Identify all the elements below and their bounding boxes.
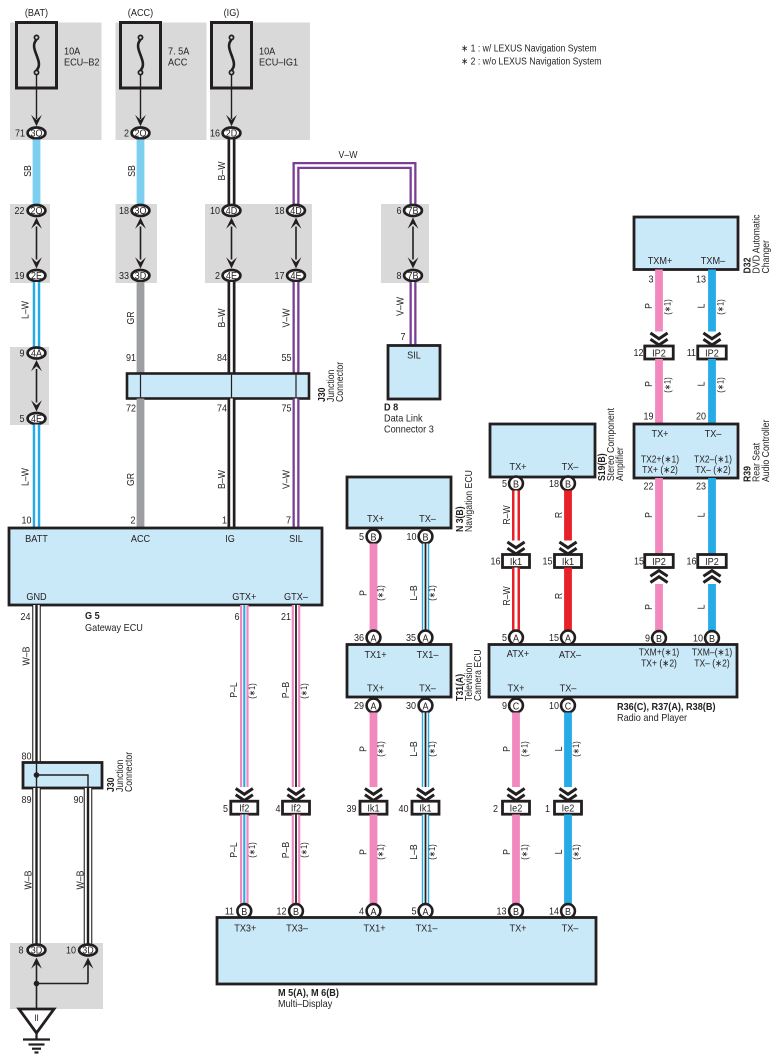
- svg-text:16: 16: [491, 557, 501, 568]
- gray panel connector 2Q/2E column1: [10, 204, 50, 283]
- connector IP2 row2 left: [645, 555, 674, 568]
- svg-text:72: 72: [126, 404, 136, 415]
- svg-text:IP2: IP2: [705, 347, 719, 359]
- svg-text:II: II: [34, 1013, 39, 1024]
- svg-text:L–W: L–W: [21, 468, 32, 486]
- svg-text:TX+: TX+: [652, 428, 669, 440]
- svg-text:11: 11: [687, 348, 697, 359]
- svg-text:L–B: L–B: [409, 741, 420, 757]
- svg-text:B–W: B–W: [217, 308, 228, 327]
- gray panel behind ACC fuse: [116, 23, 207, 141]
- svg-text:P: P: [644, 604, 655, 610]
- svg-text:39: 39: [347, 804, 357, 815]
- svg-text:2: 2: [131, 516, 136, 527]
- fuse value 10A ECU–IG1: [259, 46, 298, 69]
- svg-text:(∗1): (∗1): [376, 844, 386, 859]
- svg-text:If2: If2: [239, 802, 249, 814]
- chevron arrows into IP2 connectors row1: [650, 333, 667, 339]
- connector IP2 row1 right: [698, 346, 727, 359]
- svg-text:L: L: [697, 512, 708, 517]
- svg-text:4: 4: [359, 907, 364, 918]
- svg-text:R: R: [554, 593, 565, 599]
- svg-text:(∗1): (∗1): [716, 377, 726, 392]
- wire GR column2 upper: [137, 282, 145, 374]
- svg-text:V–W: V–W: [282, 470, 293, 489]
- svg-text:Camera ECU: Camera ECU: [473, 649, 484, 701]
- wire V-W column4 lower: [293, 399, 300, 529]
- svg-text:Radio and Player: Radio and Player: [617, 712, 688, 724]
- connector circle C R36 TX-: [561, 699, 575, 713]
- svg-text:14: 14: [549, 907, 559, 918]
- wire L from IP2 to R36: [708, 584, 716, 631]
- svg-text:B: B: [513, 479, 519, 490]
- svg-text:10: 10: [407, 532, 417, 543]
- wire fuse IG output: [226, 75, 237, 126]
- svg-text:19: 19: [644, 412, 654, 423]
- svg-text:8: 8: [19, 946, 24, 957]
- svg-text:P: P: [359, 590, 370, 596]
- svg-text:5: 5: [359, 532, 364, 543]
- connector If2 GTX+: [231, 801, 258, 814]
- svg-text:GTX+: GTX+: [232, 591, 256, 603]
- svg-text:90: 90: [74, 795, 84, 806]
- wire B-W column3: [228, 140, 236, 205]
- svg-text:Connector: Connector: [335, 361, 346, 402]
- connector 2Q/2E pair column1: [28, 205, 46, 217]
- svg-text:TXM–(∗1): TXM–(∗1): [692, 648, 732, 659]
- wire P lower column10: [512, 815, 520, 905]
- wire P to R39 TX+: [655, 359, 663, 424]
- wire W-B GND from G5 to J30: [32, 605, 41, 763]
- svg-text:(BAT): (BAT): [25, 7, 48, 19]
- svg-text:(∗1): (∗1): [299, 683, 309, 698]
- wire V-W column5 to DLC3: [410, 282, 417, 346]
- svg-text:Gateway ECU: Gateway ECU: [85, 622, 143, 634]
- svg-text:2Q: 2Q: [31, 206, 43, 217]
- connector 4D/4E pair column4: [287, 205, 305, 217]
- fuse value 7. 5A ACC: [168, 46, 189, 69]
- wire SB column1: [33, 140, 41, 205]
- svg-text:TX2–(∗1): TX2–(∗1): [694, 455, 732, 466]
- svg-text:P–B: P–B: [281, 682, 292, 699]
- chevron arrows into Ik1/Ie2 connectors row3: [365, 789, 382, 795]
- svg-text:GTX–: GTX–: [284, 591, 308, 603]
- svg-text:GR: GR: [126, 473, 137, 486]
- svg-text:L: L: [697, 604, 708, 609]
- ground symbol II: [19, 1009, 54, 1053]
- svg-text:16: 16: [687, 557, 697, 568]
- connector 3Q column1: [28, 128, 46, 140]
- svg-text:30: 30: [406, 701, 416, 712]
- wire P-L GTX+ lower: [240, 815, 249, 905]
- svg-text:91: 91: [126, 353, 136, 364]
- ground wiring inside panel: [31, 958, 93, 1010]
- wire fuse ACC output: [135, 75, 146, 126]
- gray panel ground connectors 3D: [10, 943, 103, 1009]
- svg-text:4E: 4E: [31, 414, 42, 425]
- svg-text:P: P: [359, 746, 370, 752]
- connector Ie2 right: [555, 801, 582, 814]
- connector circle A R36 ATX+: [509, 631, 523, 645]
- ECU M5(A) M6(B) Multi-Display: [217, 918, 596, 985]
- svg-text:7: 7: [286, 516, 291, 527]
- svg-text:11: 11: [225, 907, 235, 918]
- gray panel connector 4D/4E columns3-4: [205, 204, 312, 283]
- svg-text:(∗1): (∗1): [299, 842, 309, 857]
- svg-text:21: 21: [281, 612, 291, 623]
- wire R lower to R36: [564, 568, 572, 631]
- connector circle B R36 TXM-: [705, 631, 719, 645]
- svg-text:B: B: [565, 479, 571, 490]
- svg-text:15: 15: [634, 557, 644, 568]
- svg-text:3D: 3D: [135, 271, 147, 282]
- svg-text:(∗1): (∗1): [247, 683, 257, 698]
- svg-text:(∗1): (∗1): [427, 844, 437, 859]
- svg-text:18: 18: [275, 206, 285, 217]
- svg-text:2: 2: [493, 804, 498, 815]
- svg-text:SIL: SIL: [407, 350, 421, 362]
- svg-text:(IG): (IG): [224, 7, 240, 19]
- gray panel behind IG fuse: [210, 23, 310, 141]
- connector IP2 row2 right: [698, 555, 727, 568]
- gray panel connector 4A/4E: [10, 347, 49, 425]
- svg-text:(ACC): (ACC): [128, 7, 153, 19]
- chevron arrows into Ik1 connectors row2: [507, 542, 524, 548]
- svg-text:9: 9: [20, 349, 25, 360]
- connector circle A T31 TX-: [419, 699, 433, 713]
- svg-text:33: 33: [119, 271, 129, 282]
- wire P-B GTX- lower: [292, 815, 301, 905]
- svg-text:P: P: [644, 303, 655, 309]
- wire L lower column11: [564, 815, 572, 905]
- svg-text:84: 84: [217, 353, 227, 364]
- label M5(A) M6(B) Multi-Display: [278, 987, 339, 1010]
- svg-text:(∗1): (∗1): [520, 741, 530, 756]
- wire R-W from S19 TX+ upper: [512, 491, 520, 541]
- svg-text:A: A: [513, 633, 519, 644]
- svg-text:A: A: [565, 633, 571, 644]
- svg-text:If2: If2: [291, 802, 301, 814]
- svg-text:3: 3: [649, 275, 654, 286]
- svg-text:R–W: R–W: [502, 586, 513, 606]
- wire L to R39 TX-: [708, 359, 716, 424]
- svg-text:9: 9: [645, 634, 650, 645]
- svg-text:ACC: ACC: [168, 57, 188, 69]
- connector If2 GTX-: [283, 801, 310, 814]
- wire R from S19 TX- upper: [564, 491, 572, 541]
- connector Ik1 row3 left: [360, 801, 387, 814]
- svg-text:BATT: BATT: [25, 533, 48, 545]
- svg-text:6: 6: [235, 612, 240, 623]
- fuse F3 (IG) 10A ECU-IG1: [212, 23, 252, 89]
- svg-text:3Q: 3Q: [31, 129, 43, 140]
- svg-text:L–W: L–W: [21, 301, 32, 319]
- wire L-W column1 upper: [33, 282, 41, 348]
- svg-text:16: 16: [210, 129, 220, 140]
- svg-text:IP2: IP2: [652, 556, 666, 568]
- svg-text:TX1+: TX1+: [364, 649, 386, 661]
- gray panel connector 7B/7B: [381, 204, 429, 283]
- svg-text:ECU–B2: ECU–B2: [64, 57, 100, 69]
- svg-text:P–L: P–L: [229, 682, 240, 698]
- svg-text:(∗1): (∗1): [663, 299, 673, 314]
- svg-text:TX+ (∗2): TX+ (∗2): [641, 659, 677, 670]
- svg-text:40: 40: [399, 804, 409, 815]
- connector circle B M TX3-: [289, 904, 303, 918]
- svg-text:TX–: TX–: [562, 461, 579, 473]
- wire L from R39 to IP2: [708, 478, 716, 555]
- wire L from R36 TX-: [564, 713, 572, 788]
- svg-text:B: B: [423, 532, 429, 543]
- svg-text:89: 89: [22, 795, 32, 806]
- svg-text:7: 7: [401, 332, 406, 343]
- svg-text:6: 6: [397, 206, 402, 217]
- ECU T31(A) Television Camera ECU: [347, 645, 451, 698]
- svg-text:TXM+: TXM+: [648, 255, 673, 267]
- connector 4A/4E pair column1: [28, 348, 46, 360]
- ECU R36 Radio and Player: [489, 645, 737, 698]
- svg-text:V–W: V–W: [396, 297, 407, 316]
- svg-text:V–W: V–W: [282, 308, 293, 327]
- svg-text:Ik1: Ik1: [419, 802, 431, 814]
- svg-text:W–B: W–B: [76, 870, 87, 889]
- svg-text:P: P: [644, 512, 655, 518]
- wire P from IP2 to R36: [655, 584, 663, 631]
- svg-text:2: 2: [124, 129, 129, 140]
- svg-text:B–W: B–W: [217, 161, 228, 180]
- connector Ie2 left: [503, 801, 530, 814]
- svg-text:Ie2: Ie2: [510, 802, 523, 814]
- svg-text:TX–: TX–: [562, 923, 579, 935]
- svg-text:Ik1: Ik1: [510, 556, 522, 568]
- svg-text:L–B: L–B: [409, 585, 420, 601]
- svg-text:TX+: TX+: [510, 923, 527, 935]
- svg-text:23: 23: [696, 482, 706, 493]
- svg-text:10: 10: [66, 946, 76, 957]
- svg-text:13: 13: [696, 275, 706, 286]
- svg-text:GND: GND: [26, 591, 47, 603]
- svg-text:B: B: [371, 532, 377, 543]
- svg-text:3D: 3D: [31, 946, 43, 957]
- svg-text:75: 75: [282, 404, 292, 415]
- wire L-B from T31 TX-: [422, 713, 429, 788]
- svg-text:10: 10: [22, 516, 32, 527]
- svg-text:A: A: [423, 633, 429, 644]
- svg-text:Audio Controller: Audio Controller: [761, 419, 772, 482]
- wire P lower column8: [370, 815, 378, 905]
- svg-text:3D: 3D: [82, 946, 94, 957]
- svg-text:4A: 4A: [31, 349, 42, 360]
- svg-text:P: P: [359, 849, 370, 855]
- svg-text:TXM–: TXM–: [701, 255, 726, 267]
- wire V-W branch from 4D to 7B: [296, 166, 413, 206]
- svg-text:TX–: TX–: [419, 513, 436, 525]
- svg-text:L: L: [697, 381, 708, 386]
- svg-text:Changer: Changer: [761, 240, 772, 274]
- connector circle B N3 TX-: [419, 530, 433, 544]
- svg-text:5: 5: [412, 907, 417, 918]
- ECU N3(B) Navigation ECU: [347, 477, 451, 528]
- svg-text:TX+: TX+: [367, 683, 384, 695]
- svg-text:P: P: [644, 381, 655, 387]
- wire L-B from N3 TX-: [422, 544, 429, 631]
- connector circle B M TX3+: [237, 904, 251, 918]
- svg-text:TX– (∗2): TX– (∗2): [695, 465, 731, 476]
- connector 3D left: [28, 945, 46, 957]
- svg-text:10: 10: [210, 206, 220, 217]
- svg-text:4D: 4D: [226, 206, 238, 217]
- svg-text:Connector 3: Connector 3: [384, 424, 434, 436]
- svg-text:IP2: IP2: [705, 556, 719, 568]
- ECU S19(B) Stereo Component Amplifier: [490, 424, 595, 477]
- connector circle A T31 TX1+: [367, 631, 381, 645]
- svg-text:(∗1): (∗1): [427, 741, 437, 756]
- svg-text:SB: SB: [127, 165, 138, 177]
- connector 7B/7B pair: [404, 205, 422, 217]
- svg-text:7B: 7B: [408, 271, 419, 282]
- svg-text:(∗1): (∗1): [427, 585, 437, 600]
- connector 3D right: [79, 945, 97, 957]
- svg-text:TX+: TX+: [367, 513, 384, 525]
- connector Ik1 row3 right: [412, 801, 439, 814]
- svg-text:Amplifier: Amplifier: [615, 447, 626, 481]
- svg-text:10: 10: [549, 701, 559, 712]
- svg-text:Ik1: Ik1: [367, 802, 379, 814]
- junction connector J30 lower: [23, 763, 102, 789]
- svg-text:SB: SB: [23, 165, 34, 177]
- connector 2Q column2: [132, 128, 150, 140]
- wire P from R39 to IP2: [655, 478, 663, 555]
- svg-text:(∗1): (∗1): [520, 844, 530, 859]
- connector 2D column3: [223, 128, 241, 140]
- connector 4D/4E pair column3: [223, 205, 241, 217]
- svg-text:12: 12: [634, 348, 644, 359]
- svg-text:TX–: TX–: [419, 683, 436, 695]
- svg-text:8: 8: [397, 271, 402, 282]
- wire W-B left to ground connector: [32, 788, 41, 944]
- svg-text:ACC: ACC: [131, 533, 151, 545]
- wire P from N3 TX+: [370, 544, 378, 631]
- svg-text:IP2: IP2: [652, 347, 666, 359]
- ECU G5 Gateway ECU: [9, 528, 322, 605]
- svg-text:R: R: [554, 512, 565, 518]
- svg-text:10: 10: [693, 634, 703, 645]
- connector circle B M TX+: [509, 904, 523, 918]
- chevron arrows into If2 connectors: [236, 789, 253, 795]
- svg-text:(∗1): (∗1): [571, 844, 581, 859]
- connector circle B S19 TX-: [561, 477, 575, 491]
- svg-text:L–B: L–B: [409, 844, 420, 860]
- label D8 Data Link Connector 3: [384, 402, 434, 436]
- svg-text:L: L: [554, 849, 565, 854]
- fuse value 10A ECU–B2: [64, 46, 100, 69]
- svg-text:2E: 2E: [31, 271, 42, 282]
- svg-text:3Q: 3Q: [135, 206, 147, 217]
- wire B-W column3 upper: [228, 282, 236, 374]
- svg-text:22: 22: [644, 482, 654, 493]
- svg-text:15: 15: [549, 633, 559, 644]
- svg-text:4E: 4E: [291, 271, 302, 282]
- svg-text:4: 4: [276, 804, 281, 815]
- wire P from D32 TXM+: [655, 270, 663, 332]
- svg-text:Ik1: Ik1: [562, 556, 574, 568]
- fuse F1 (BAT) 10A ECU-B2: [17, 23, 57, 89]
- svg-text:4D: 4D: [290, 206, 302, 217]
- label G5 Gateway ECU: [85, 610, 143, 634]
- svg-text:1: 1: [222, 516, 227, 527]
- svg-text:20: 20: [696, 412, 706, 423]
- svg-text:∗ 1 : w/ LEXUS Navigation Syst: ∗ 1 : w/ LEXUS Navigation System: [461, 44, 597, 55]
- svg-text:V–W: V–W: [339, 150, 358, 161]
- ECU D8 Data Link Connector 3: [388, 346, 440, 400]
- svg-text:TXM+(∗1): TXM+(∗1): [639, 648, 680, 659]
- svg-text:7B: 7B: [408, 206, 419, 217]
- svg-text:TX+ (∗2): TX+ (∗2): [642, 465, 678, 476]
- connector 3Q/3D pair column2: [132, 205, 150, 217]
- svg-text:TX3+: TX3+: [234, 923, 256, 935]
- svg-text:P–B: P–B: [281, 842, 292, 859]
- svg-text:TX–: TX–: [560, 683, 577, 695]
- svg-text:19: 19: [15, 271, 25, 282]
- svg-text:(∗1): (∗1): [663, 377, 673, 392]
- wire B-W column3 lower: [228, 399, 236, 529]
- svg-text:29: 29: [354, 701, 364, 712]
- wire P-L GTX+ upper: [240, 605, 249, 787]
- svg-text:18: 18: [119, 206, 129, 217]
- svg-text:13: 13: [497, 907, 507, 918]
- svg-text:GR: GR: [126, 311, 137, 324]
- connector circle A M TX1-: [419, 904, 433, 918]
- svg-text:2D: 2D: [226, 129, 238, 140]
- svg-text:(∗1): (∗1): [716, 299, 726, 314]
- connector circle B R36 TXM+: [652, 631, 666, 645]
- svg-text:TX3–: TX3–: [286, 923, 308, 935]
- svg-text:2Q: 2Q: [135, 129, 147, 140]
- svg-text:TX1+: TX1+: [363, 923, 385, 935]
- svg-text:4E: 4E: [226, 271, 237, 282]
- wire W-B right to ground connector: [84, 788, 93, 944]
- svg-text:TX2+(∗1): TX2+(∗1): [641, 455, 679, 466]
- connector IP2 row1 left: [645, 346, 674, 359]
- ECU D32 DVD Automatic Changer: [634, 217, 738, 270]
- svg-text:24: 24: [21, 612, 31, 623]
- chevron arrows out of IP2 row2: [650, 577, 667, 583]
- fuse F2 (ACC) 7.5A ACC: [121, 23, 161, 89]
- svg-text:5: 5: [502, 633, 507, 644]
- svg-text:P: P: [502, 746, 513, 752]
- svg-text:(∗1): (∗1): [376, 585, 386, 600]
- wire SB column2: [137, 140, 145, 205]
- svg-text:ATX+: ATX+: [507, 648, 529, 660]
- svg-text:80: 80: [22, 752, 32, 763]
- connector Ik1 row2 right: [555, 555, 582, 568]
- wire fuse BAT output: [31, 75, 42, 126]
- svg-text:Navigation ECU: Navigation ECU: [464, 470, 475, 532]
- svg-text:22: 22: [15, 206, 25, 217]
- svg-text:1: 1: [545, 804, 550, 815]
- svg-text:P–L: P–L: [229, 842, 240, 858]
- connector circle B M TX-: [561, 904, 575, 918]
- svg-text:TX1–: TX1–: [416, 923, 438, 935]
- connector circle C R36 TX+: [509, 699, 523, 713]
- connector circle A T31 TX+: [367, 699, 381, 713]
- gray panel connector 3Q/3D column2: [116, 204, 158, 283]
- svg-text:L: L: [697, 303, 708, 308]
- svg-text:Connector: Connector: [124, 751, 135, 792]
- wire P from T31 TX+: [370, 713, 378, 788]
- svg-text:(∗1): (∗1): [376, 741, 386, 756]
- svg-text:A: A: [423, 701, 429, 712]
